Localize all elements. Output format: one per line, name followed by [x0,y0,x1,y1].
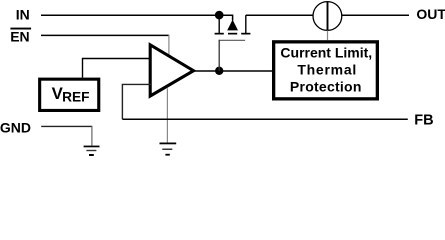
ground symbol (amplifier) [160,143,177,156]
block: Current Limit / Thermal Protection [274,42,378,99]
node: gate drive junction [215,67,223,75]
body arrow [227,20,238,31]
body connection jog [219,15,232,20]
wire gate drive (junction up to gate) [218,40,220,71]
transistor Q1 (PMOS pass element) [215,15,251,40]
wire sensor to protection block [327,31,329,41]
wire FB to amp input [122,84,151,119]
gate plate [219,39,246,41]
svg-text:GND: GND [0,120,31,136]
svg-text:Protection: Protection [290,79,362,95]
svg-text:IN: IN [16,7,30,23]
wire VREF to amp input [83,59,152,78]
body contact bar [228,33,237,35]
drain leg [245,15,247,33]
pin label EN (overline = active low) [10,28,31,45]
source leg [218,15,220,33]
svg-text:Current Limit,: Current Limit, [280,45,372,61]
wire sensor to OUT [342,14,409,16]
svg-text:FB: FB [414,113,433,129]
wire GND [41,126,92,146]
reference VREF [40,79,99,110]
current limit sensor [313,2,342,31]
svg-text:EN: EN [10,28,29,44]
source contact bar [215,33,224,35]
drain contact bar [241,33,250,35]
wire IN rail [41,14,219,16]
wire drain to current sensor [246,14,313,16]
node: IN / source junction [215,11,224,20]
wire FB rail [122,118,407,120]
ground symbol (GND pin) [84,146,100,156]
wire EN to error amplifier [41,35,169,56]
svg-text:REF: REF [62,90,89,105]
svg-text:Thermal: Thermal [297,62,357,78]
wire amp output to protection block [194,70,273,72]
svg-text:OUT: OUT [416,6,445,22]
wire amplifier to ground [166,88,168,143]
op-amp U1 error amplifier [150,45,193,96]
